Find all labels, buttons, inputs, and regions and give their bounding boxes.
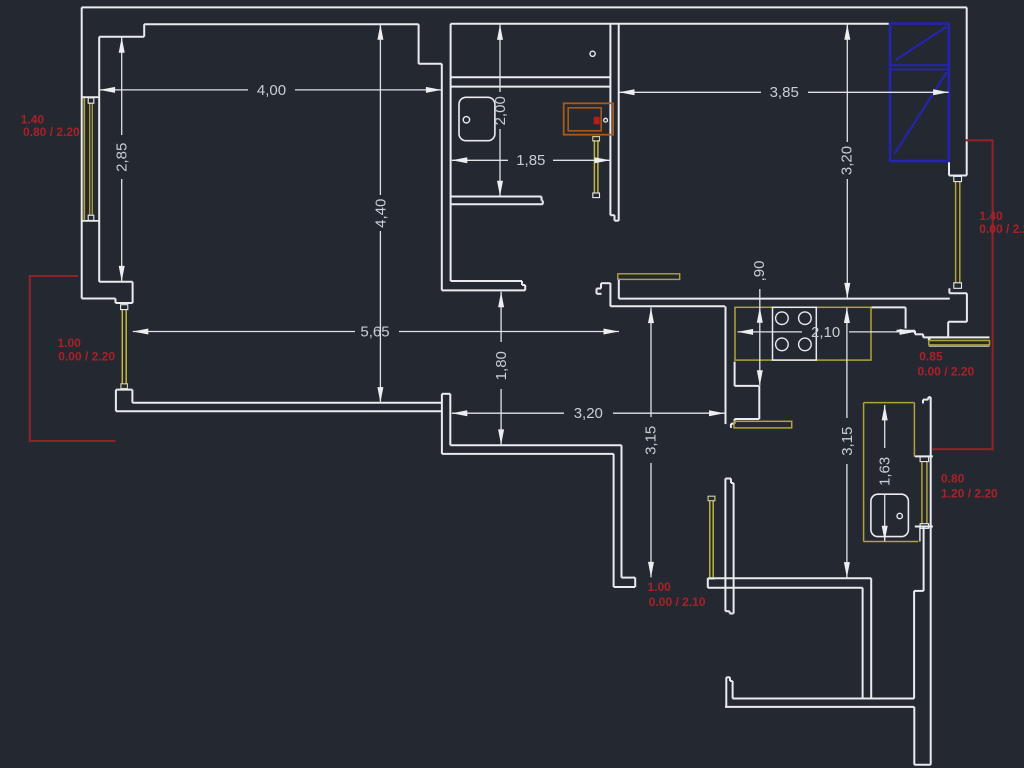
svg-text:1,85: 1,85 bbox=[516, 152, 545, 169]
kitchen shelf yellow bbox=[618, 274, 680, 280]
svg-text:4,40: 4,40 bbox=[372, 199, 389, 228]
dimension 2,10 bbox=[738, 324, 915, 341]
svg-text:0.00 / 2.2: 0.00 / 2.2 bbox=[979, 222, 1024, 236]
red label 1.40 window-left bbox=[21, 112, 80, 139]
wall east inner mid bbox=[914, 527, 924, 699]
wall corridor south bbox=[442, 445, 622, 454]
wall step living bbox=[419, 24, 442, 64]
svg-text:0.85: 0.85 bbox=[919, 349, 943, 363]
svg-text:0.00 / 2.10: 0.00 / 2.10 bbox=[649, 595, 706, 609]
wall bathroom1 left bbox=[450, 24, 452, 281]
door D3 sill cap bbox=[707, 578, 715, 580]
door D1 leaf bbox=[121, 305, 128, 389]
wall bedroom2 north bbox=[708, 578, 871, 588]
svg-text:1.20 / 2.20: 1.20 / 2.20 bbox=[941, 486, 998, 500]
red label 0.80 window3 bbox=[941, 472, 998, 501]
red label 1.40 window-right bbox=[979, 209, 1024, 236]
door D1 jamb bottom bbox=[116, 390, 132, 412]
wall divider living-hall bbox=[441, 64, 443, 291]
dimension 2,85 bbox=[114, 37, 131, 281]
svg-text:2,85: 2,85 bbox=[114, 143, 131, 172]
washbasin bathroom1 bbox=[459, 97, 495, 140]
dimension 3,85 bbox=[619, 84, 949, 101]
wall bathroom1 south bbox=[451, 197, 543, 205]
wall notch above bathroom3 bbox=[923, 397, 931, 403]
svg-text:3,20: 3,20 bbox=[574, 405, 603, 422]
svg-text:3,85: 3,85 bbox=[770, 84, 799, 101]
wall bathroom1 right outer bbox=[618, 24, 620, 221]
wall outer left upper bbox=[81, 7, 83, 298]
wall kitchen north bbox=[610, 279, 949, 307]
svg-text:2,00: 2,00 bbox=[492, 96, 509, 125]
dimension 3,20 bbox=[452, 405, 725, 422]
svg-text:1.00: 1.00 bbox=[648, 580, 672, 594]
wall bedroom2 west lower bbox=[726, 677, 732, 707]
dimension 1,85 bbox=[452, 152, 610, 169]
window W2 glass bbox=[954, 176, 962, 288]
svg-text:0.80: 0.80 bbox=[941, 472, 965, 486]
svg-text:2,10: 2,10 bbox=[811, 324, 840, 341]
wall kitchen T-cap bbox=[597, 283, 611, 306]
red label 0.85 balcony-door bbox=[918, 349, 975, 378]
bathroom3 sink bbox=[871, 494, 909, 536]
red boundary balcony bbox=[932, 140, 992, 449]
door D3 leaf bedroom2 bbox=[708, 496, 715, 577]
wall corridor west lower bbox=[614, 445, 622, 587]
wall bathroom1 end notch bbox=[610, 215, 618, 221]
svg-text:1,80: 1,80 bbox=[493, 351, 510, 380]
wall inner left upper bbox=[98, 37, 100, 282]
wall pillar hall bbox=[442, 394, 450, 454]
wall right below window2 bbox=[930, 293, 967, 340]
svg-text:4,00: 4,00 bbox=[257, 82, 286, 99]
svg-text:0.00 / 2.20: 0.00 / 2.20 bbox=[918, 364, 975, 378]
dimension 4,40 bbox=[372, 24, 389, 402]
svg-text:1,63: 1,63 bbox=[877, 457, 894, 486]
kitchen doorway jambs bbox=[731, 362, 759, 428]
wall corridor north bbox=[442, 281, 525, 290]
wall bedroom2 west upper bbox=[725, 479, 733, 614]
bathroom3 finish yellow bbox=[864, 403, 919, 542]
svg-text:5,65: 5,65 bbox=[360, 323, 389, 340]
window W3 top cap bbox=[915, 455, 933, 457]
svg-text:0.00 / 2.20: 0.00 / 2.20 bbox=[58, 350, 115, 364]
svg-text:1.40: 1.40 bbox=[979, 209, 1003, 223]
wall bedroom2 south bbox=[725, 699, 914, 707]
wall bathroom1 right inner bbox=[609, 24, 611, 215]
wall inner top-left bbox=[99, 24, 418, 37]
window W3 glass bbox=[920, 457, 929, 529]
wall window2 jamb top bbox=[949, 7, 967, 175]
dimension 5,65 bbox=[133, 323, 619, 340]
wall window2 jamb bottom bbox=[949, 288, 967, 293]
door D2 leaf bathroom1 bbox=[593, 137, 600, 198]
wall hall south bbox=[116, 403, 442, 412]
dimension 1,63 bbox=[877, 405, 894, 541]
door D1 jamb top bbox=[82, 282, 133, 303]
blue balcony window bbox=[890, 24, 949, 162]
dimension 3,15 bbox=[643, 308, 660, 578]
toilet bathroom1 bbox=[590, 51, 595, 56]
window W1 top cap bbox=[82, 96, 100, 98]
window W1 glass bbox=[84, 98, 93, 220]
wall kitchen west bbox=[725, 306, 727, 424]
bathroom1 divider lines bbox=[451, 77, 611, 86]
dimension ,90 bbox=[751, 261, 768, 386]
window W3 bottom cap bbox=[915, 527, 933, 542]
wall top inner right bbox=[451, 23, 890, 25]
balcony door sill bbox=[929, 341, 990, 347]
dimension 3,15 bbox=[839, 308, 856, 578]
wall bedroom2 base corner bbox=[914, 707, 930, 765]
red label 1.00 bedroom2-door bbox=[648, 580, 706, 609]
wall outer east lower bbox=[930, 397, 932, 765]
window W1 bottom cap bbox=[82, 220, 100, 222]
dimension 2,00 bbox=[492, 24, 509, 196]
svg-text:3,15: 3,15 bbox=[643, 426, 660, 455]
svg-text:1.00: 1.00 bbox=[58, 336, 82, 350]
dimension 3,20 bbox=[838, 24, 855, 298]
svg-text:0.80 / 2.20: 0.80 / 2.20 bbox=[23, 125, 80, 139]
wall balcony door steps bbox=[897, 331, 990, 341]
stove bbox=[773, 307, 817, 360]
svg-text:,90: ,90 bbox=[751, 261, 768, 282]
kitchen door sill bbox=[734, 421, 792, 428]
wall outer top bbox=[82, 6, 967, 8]
red boundary entrance bbox=[30, 276, 116, 441]
wall right of counter bbox=[871, 307, 906, 328]
svg-text:3,20: 3,20 bbox=[838, 146, 855, 175]
kitchen counter bbox=[735, 307, 871, 360]
svg-text:3,15: 3,15 bbox=[839, 427, 856, 456]
wall corridor cap bbox=[614, 578, 636, 587]
wall bedroom2 east bbox=[863, 578, 872, 698]
red label 1.00 entrance bbox=[58, 336, 116, 364]
water heater bbox=[564, 103, 613, 134]
dimension 4,00 bbox=[100, 82, 442, 99]
dimension 1,80 bbox=[493, 292, 510, 445]
